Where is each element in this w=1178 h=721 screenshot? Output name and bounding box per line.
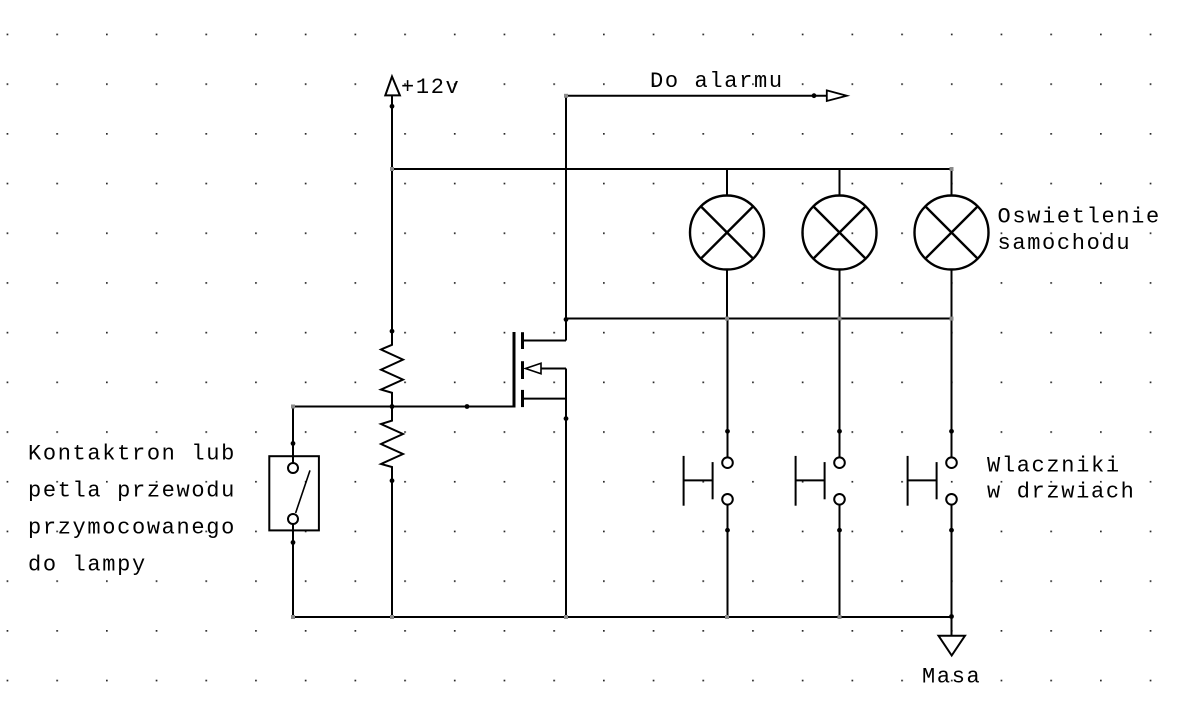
wire below reed switch [292, 524, 294, 617]
junction snap markers [291, 94, 954, 619]
lamp L1 [690, 169, 764, 319]
svg-text:Do alarmu: Do alarmu [650, 69, 784, 94]
wire Do alarmu [566, 95, 827, 97]
wire top rail [391, 168, 952, 170]
wire +12v rail down to R1 [391, 169, 393, 332]
svg-text:Wlaczniki: Wlaczniki [987, 454, 1121, 479]
wire lamp bottom bus [566, 318, 952, 320]
svg-text:Oswietlenie: Oswietlenie [998, 205, 1161, 230]
switch SW3 door [908, 319, 957, 618]
wire R2 bottom to ground bus [391, 481, 393, 617]
wire ground bus [293, 616, 952, 618]
node drain bus junction [564, 317, 569, 322]
wire drain net vertical [565, 96, 567, 341]
node gate junction [390, 404, 395, 409]
node on gate wire [465, 404, 470, 409]
wire +12v stem [391, 96, 393, 170]
node below +12v [390, 104, 395, 109]
label reed switch [28, 442, 236, 578]
wire ground stem [951, 617, 953, 636]
svg-text:Kontaktron lub: Kontaktron lub [28, 442, 236, 467]
svg-text:do lampy: do lampy [28, 553, 147, 578]
svg-text:w drzwiach: w drzwiach [987, 480, 1136, 505]
reed switch S1 [269, 456, 319, 530]
resistor R2 [381, 407, 403, 482]
node source body junction [564, 416, 569, 421]
lamp L3 [915, 168, 989, 319]
svg-text:+12v: +12v [401, 75, 460, 100]
node ground junction [949, 614, 954, 619]
switch SW2 door [796, 319, 845, 618]
switch SW1 door [684, 319, 733, 618]
node R1 top [390, 329, 395, 334]
node below reed switch [291, 540, 296, 545]
wire gate net [293, 406, 514, 408]
arrow Do alarmu [827, 90, 847, 101]
lamp L2 [803, 169, 877, 319]
node R2 bottom [390, 478, 395, 483]
power symbol +12v [385, 75, 460, 100]
label lamps [998, 205, 1161, 256]
node on Do alarmu wire [812, 93, 817, 98]
wire gate corner down to reed switch [292, 406, 294, 464]
node above reed switch [291, 441, 296, 446]
resistor R1 [381, 331, 403, 407]
svg-text:petla przewodu: petla przewodu [28, 479, 236, 504]
label switches [987, 454, 1136, 505]
wire source to ground bus [565, 369, 567, 618]
svg-text:przymocowanego: przymocowanego [28, 516, 236, 541]
svg-text:Masa: Masa [922, 664, 981, 689]
transistor Q1 MOSFET [514, 332, 566, 408]
svg-text:samochodu: samochodu [998, 231, 1132, 256]
ground [939, 636, 966, 656]
